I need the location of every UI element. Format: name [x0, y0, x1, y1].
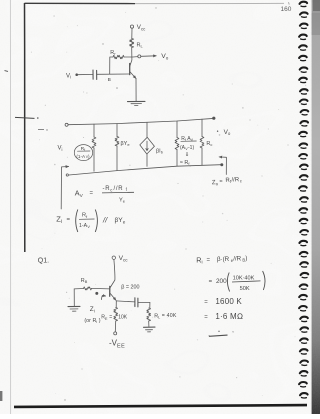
svg-text:10K·40K: 10K·40K	[233, 276, 255, 282]
svg-text:=: =	[219, 179, 222, 185]
svg-text:= 40K: = 40K	[162, 313, 177, 319]
svg-text:⇓: ⇓	[185, 151, 190, 158]
svg-text:Rf: Rf	[82, 213, 88, 219]
svg-text:-Rc: -Rc	[103, 186, 114, 192]
svg-text:=: =	[204, 299, 208, 305]
svg-text:=: =	[207, 257, 211, 263]
svg-text:50K: 50K	[240, 286, 250, 292]
svg-text:=: =	[109, 314, 112, 320]
svg-text:V: V	[87, 225, 90, 229]
svg-text:-1): -1)	[188, 145, 194, 151]
svg-text://: //	[102, 216, 108, 225]
svg-text:=: =	[90, 191, 94, 197]
svg-text:βIb: βIb	[156, 148, 164, 154]
svg-text:Vi: Vi	[66, 73, 71, 79]
svg-text:≈ Rf: ≈ Rf	[180, 160, 191, 166]
svg-text:10K: 10K	[118, 314, 128, 320]
svg-text:(1-A: (1-A	[76, 154, 86, 159]
svg-text:=: =	[209, 279, 213, 285]
svg-text://R: //R	[231, 177, 240, 183]
svg-text:=: =	[67, 217, 71, 223]
svg-text:): )	[245, 255, 247, 262]
svg-text:β·(R: β·(R	[217, 256, 230, 263]
svg-text:Vi: Vi	[58, 146, 63, 152]
svg-text:1-A: 1-A	[79, 223, 88, 229]
svg-text:1·6 MΩ: 1·6 MΩ	[215, 312, 243, 321]
svg-text:Ye: Ye	[119, 197, 126, 203]
svg-text:Rc: Rc	[206, 141, 212, 147]
svg-text:160: 160	[281, 6, 292, 13]
svg-text://R: //R	[114, 186, 124, 192]
svg-text:Q1.: Q1.	[38, 257, 49, 264]
svg-text:1600 K: 1600 K	[215, 297, 242, 306]
svg-text://R: //R	[233, 255, 241, 262]
svg-text:c: c	[240, 178, 242, 183]
svg-text:β = 200: β = 200	[121, 285, 139, 291]
svg-text:Rf: Rf	[110, 50, 116, 56]
svg-text:RL: RL	[137, 43, 144, 49]
svg-text:βYe: βYe	[121, 141, 131, 147]
svg-text:200: 200	[216, 278, 227, 285]
svg-text:=: =	[204, 315, 208, 321]
svg-text:B: B	[108, 77, 111, 83]
svg-text:(or Ri: (or Ri	[84, 318, 97, 324]
